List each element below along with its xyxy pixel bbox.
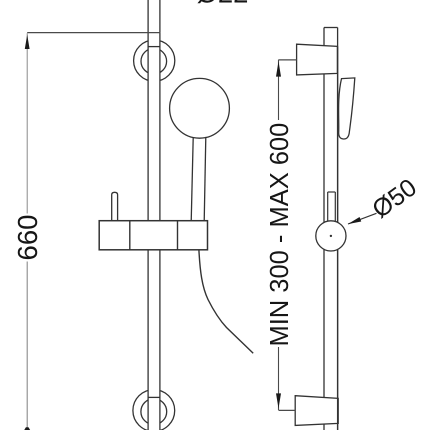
svg-text:660: 660 <box>12 215 43 261</box>
svg-text:MIN 300 - MAX 600: MIN 300 - MAX 600 <box>266 123 294 347</box>
svg-text:Ø22: Ø22 <box>197 0 249 9</box>
